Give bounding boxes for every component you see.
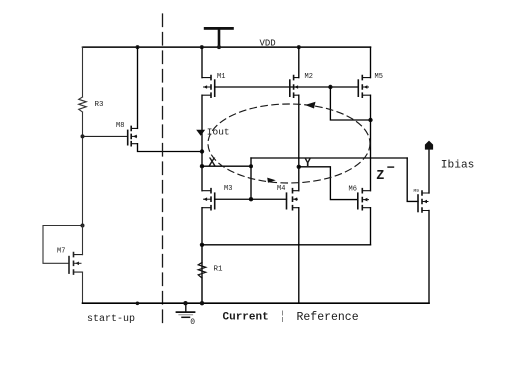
- svg-text:R3: R3: [95, 101, 105, 109]
- wire M3/M4 gate: [215, 198, 287, 200]
- wire X jog vertical: [250, 158, 252, 199]
- svg-text:start-up: start-up: [87, 314, 135, 325]
- node dot X on main line: [200, 164, 204, 168]
- dashed separator line: [162, 14, 164, 325]
- resistor R1: [198, 245, 206, 303]
- svg-text:M7: M7: [57, 248, 65, 256]
- ground symbol: [177, 303, 195, 317]
- svg-text:M6: M6: [349, 186, 357, 194]
- M4 bulk arrow: [293, 197, 297, 201]
- wire node X horizontal: [202, 165, 251, 167]
- node dot M8-source on main line: [200, 149, 204, 153]
- svg-text:M2: M2: [305, 73, 313, 81]
- svg-text:M9: M9: [414, 188, 420, 194]
- wire M2 drain up: [298, 47, 300, 78]
- wire M6 source down: [370, 208, 372, 245]
- M3 bulk arrow: [203, 197, 207, 201]
- node dot bottom rail R1: [200, 301, 204, 305]
- bottom ground rail: [83, 302, 430, 304]
- M2 bulk arrow: [294, 85, 298, 89]
- node dot top rail / M1 drain: [200, 45, 204, 49]
- wire M1 source down to X (main left column): [201, 95, 203, 191]
- svg-text:M4: M4: [277, 185, 285, 193]
- wire M7 drain (left line lower): [82, 226, 84, 255]
- wire M5 source down to M6 drain (node Z): [370, 95, 372, 191]
- svg-text:M8: M8: [116, 122, 124, 130]
- svg-text:Ibias: Ibias: [441, 159, 475, 171]
- M6 bulk arrow: [364, 198, 368, 202]
- svg-text:M5: M5: [375, 73, 383, 81]
- wire M3 source down: [201, 208, 203, 302]
- PMOS gate bus M1-M2-M5: [215, 86, 359, 88]
- wire M8 source to node A: [138, 144, 203, 152]
- transistor M5: [358, 76, 370, 98]
- M5 bulk arrow: [364, 85, 368, 89]
- wire M9 source down to bottom rail: [428, 211, 430, 304]
- transistor M4: [287, 189, 299, 210]
- wire M1 drain up: [201, 47, 203, 78]
- Iout arrow: [196, 130, 205, 136]
- resistor R3: [79, 97, 87, 112]
- svg-text:Z: Z: [376, 169, 384, 184]
- M8 bulk arrow: [133, 135, 137, 139]
- M9 bulk arrow: [423, 200, 427, 204]
- transistor M3: [202, 189, 215, 210]
- svg-text:Reference: Reference: [297, 311, 359, 324]
- node dot bottom rail ground tap: [183, 301, 187, 305]
- node dot Y: [297, 165, 301, 169]
- svg-text:Current: Current: [223, 312, 269, 324]
- wire M9 drain up to Ibias: [428, 149, 430, 193]
- transistor M7: [69, 253, 83, 275]
- wire M5 drain up (top rail corner): [370, 47, 372, 78]
- wire M7 gate loop: [43, 226, 83, 264]
- node dot top rail / M2 drain: [297, 45, 301, 49]
- wire M2 source down to M4 drain: [298, 95, 300, 191]
- wire M4 source down to bottom rail: [298, 208, 300, 304]
- svg-text:Iout: Iout: [207, 127, 230, 138]
- transistor M1: [202, 76, 215, 98]
- VDD supply symbol: [204, 27, 234, 47]
- M1 bulk arrow: [203, 85, 207, 89]
- node dot M3 source / feedback line: [200, 243, 204, 247]
- wire long X-to-M9gate line: [251, 157, 407, 159]
- transistor M9: [418, 191, 429, 212]
- transistor M8: [128, 126, 138, 145]
- transistor M6: [358, 189, 371, 210]
- svg-text:0: 0: [190, 318, 195, 327]
- node dot jog on Z line: [368, 118, 372, 122]
- svg-text:R1: R1: [214, 266, 224, 274]
- M7 bulk arrow: [75, 262, 79, 266]
- loop arrowhead bottom (pointing right): [267, 178, 276, 183]
- node dot bottom rail left: [136, 302, 140, 306]
- small dashed tick between labels: [282, 311, 284, 322]
- wire start-up left vertical (R3 branch): [82, 47, 84, 225]
- node dot top rail / VDD stem: [217, 45, 221, 49]
- wire M9 gate jog: [407, 158, 418, 201]
- loop arrowhead top (pointing left): [305, 102, 316, 109]
- wire M7 source down to bottom rail: [82, 272, 84, 303]
- node dot jog to gate wire M3/M4: [249, 197, 253, 201]
- transistor M2: [290, 76, 299, 98]
- node dot gate bus jog: [328, 85, 332, 89]
- Z superscript minus: [388, 166, 394, 168]
- node dot R3 line / M8 gate: [81, 134, 85, 138]
- svg-text:M3: M3: [224, 185, 232, 193]
- dashed feedback loop ellipse: [208, 104, 370, 183]
- node dot top rail / M8 drain: [136, 45, 140, 49]
- wire feedback bottom line (M3 source to M6 source): [202, 244, 371, 246]
- wire gate bus jog to Z line: [330, 87, 370, 120]
- svg-text:M1: M1: [217, 73, 225, 81]
- Ibias arrow symbol: [425, 141, 433, 150]
- wire M8 drain up to rail: [137, 47, 139, 128]
- svg-text:Y: Y: [304, 157, 311, 170]
- wire Y to M6 gate jog: [299, 167, 358, 200]
- top VDD rail: [83, 46, 371, 48]
- node dot M7 loop tap: [81, 224, 85, 228]
- svg-text:VDD: VDD: [260, 39, 276, 49]
- node dot X jog: [249, 164, 253, 168]
- wire M8 gate: [83, 135, 128, 137]
